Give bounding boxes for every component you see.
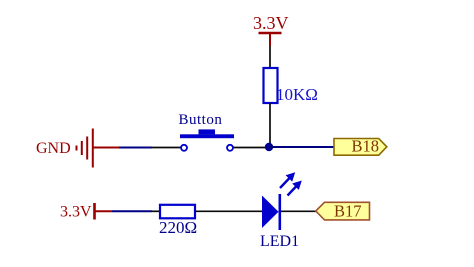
svg-text:B17: B17 [334,202,362,221]
wire: node to B18 [269,146,334,148]
wire: R2 to LED1 anode [195,210,262,212]
wire: power to R2 (blue segment) [112,210,152,212]
wire: button right pin to node [234,147,270,149]
svg-text:B18: B18 [352,137,380,156]
ground GND [36,129,119,168]
pushbutton S1 "Button" [179,112,235,151]
wire: ground to button (blue segment) [119,147,152,149]
LED D1 [260,194,299,250]
svg-text:3.3V: 3.3V [253,13,289,33]
LED light arrow 1 [280,172,295,188]
wire: LED1 cathode to B17 [281,210,317,212]
net flag B17 [316,202,370,221]
svg-text:LED1: LED1 [260,233,299,250]
svg-text:Button: Button [179,112,223,128]
svg-text:220Ω: 220Ω [159,218,197,237]
wire: R1 bottom pin to node [269,103,271,148]
net flag B18 [334,137,387,156]
resistor R1 10K [264,68,318,104]
power symbol 3.3V (top) [253,13,289,46]
junction node [265,143,273,151]
wire: R2 left pin [152,210,160,212]
wire: button S1 left pin [152,147,181,149]
resistor R2 220 [159,205,197,237]
LED light arrow 2 [288,181,302,196]
svg-text:3.3V: 3.3V [60,204,92,221]
svg-text:10KΩ: 10KΩ [276,85,318,104]
power symbol 3.3V (bottom) [60,203,112,221]
wire: power to R1 top pin [269,46,271,68]
svg-text:GND: GND [36,140,71,157]
